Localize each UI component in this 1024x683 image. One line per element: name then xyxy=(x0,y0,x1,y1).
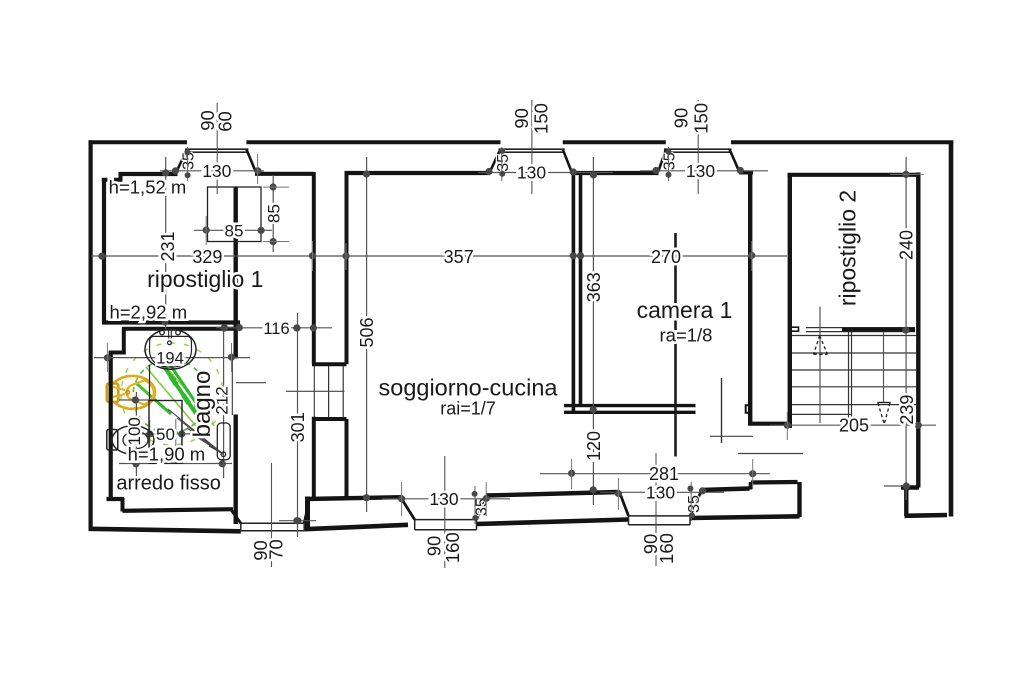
svg-text:soggiorno-cucina: soggiorno-cucina xyxy=(379,375,559,401)
svg-text:270: 270 xyxy=(651,247,681,267)
svg-text:50: 50 xyxy=(156,425,175,444)
svg-text:35: 35 xyxy=(686,495,703,513)
svg-text:150: 150 xyxy=(691,103,712,134)
svg-text:ripostiglio 2: ripostiglio 2 xyxy=(835,190,861,306)
svg-text:bagno: bagno xyxy=(189,371,216,438)
svg-text:231: 231 xyxy=(158,231,178,261)
svg-text:116: 116 xyxy=(263,320,289,338)
svg-text:90: 90 xyxy=(671,108,692,129)
svg-text:90: 90 xyxy=(511,108,532,129)
svg-text:h=1,90 m: h=1,90 m xyxy=(128,444,206,465)
svg-text:70: 70 xyxy=(266,539,287,560)
svg-text:357: 357 xyxy=(444,247,474,267)
svg-text:h=2,92 m: h=2,92 m xyxy=(109,302,187,323)
svg-text:239: 239 xyxy=(897,395,917,425)
svg-text:100: 100 xyxy=(125,417,144,445)
svg-text:506: 506 xyxy=(357,317,377,347)
svg-text:35: 35 xyxy=(495,154,512,172)
svg-text:205: 205 xyxy=(839,416,869,436)
svg-text:rai=1/7: rai=1/7 xyxy=(440,399,496,419)
svg-text:arredo fisso: arredo fisso xyxy=(116,473,221,495)
svg-text:281: 281 xyxy=(649,464,679,484)
svg-text:130: 130 xyxy=(202,161,231,181)
svg-text:camera 1: camera 1 xyxy=(637,297,733,323)
svg-text:60: 60 xyxy=(215,111,236,132)
svg-text:ripostiglio 1: ripostiglio 1 xyxy=(147,266,263,292)
svg-text:35: 35 xyxy=(662,152,679,170)
svg-text:130: 130 xyxy=(517,162,546,182)
svg-text:194: 194 xyxy=(156,350,184,368)
svg-text:130: 130 xyxy=(646,483,675,503)
svg-text:160: 160 xyxy=(442,532,463,563)
svg-text:120: 120 xyxy=(584,431,604,461)
svg-text:160: 160 xyxy=(656,533,677,564)
svg-text:130: 130 xyxy=(686,161,715,181)
svg-text:301: 301 xyxy=(288,412,308,442)
svg-text:363: 363 xyxy=(584,272,604,302)
svg-text:150: 150 xyxy=(531,103,552,134)
svg-text:h=1,52 m: h=1,52 m xyxy=(109,177,187,198)
svg-text:85: 85 xyxy=(225,222,244,241)
svg-text:240: 240 xyxy=(897,230,917,260)
svg-text:329: 329 xyxy=(192,247,222,267)
svg-text:85: 85 xyxy=(265,204,284,223)
svg-text:ra=1/8: ra=1/8 xyxy=(660,325,713,346)
svg-text:130: 130 xyxy=(429,489,458,509)
